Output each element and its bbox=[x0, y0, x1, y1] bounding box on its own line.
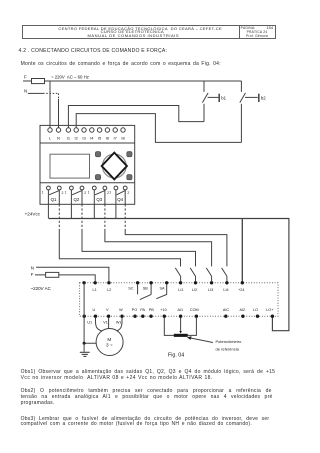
inverter terminals row1 bbox=[82, 281, 244, 284]
svg-text:b2: b2 bbox=[261, 95, 266, 100]
svg-text:1: 1 bbox=[42, 191, 44, 195]
pushbutton b2 bbox=[240, 81, 259, 142]
selector jumpers SC SB SA bbox=[138, 284, 167, 299]
svg-text:F: F bbox=[24, 75, 27, 80]
output terminal numbers bbox=[42, 191, 130, 196]
svg-text:SC: SC bbox=[128, 287, 134, 291]
logic module body bbox=[40, 125, 135, 204]
module keypad bbox=[95, 152, 132, 180]
node F label (mains) bbox=[31, 272, 34, 277]
ground bbox=[80, 343, 90, 356]
wire Q4 to LI4 bbox=[125, 190, 227, 267]
svg-text:AIC: AIC bbox=[223, 308, 230, 312]
svg-text:I1: I1 bbox=[67, 136, 71, 141]
svg-text:I7: I7 bbox=[114, 136, 118, 141]
label +24Vcc bbox=[25, 212, 41, 217]
paragraph Obs1 bbox=[21, 369, 276, 375]
svg-text:PO: PO bbox=[132, 308, 138, 312]
potentiometer body bbox=[174, 334, 188, 337]
svg-text:2: 2 bbox=[127, 191, 129, 195]
svg-text:L: L bbox=[49, 136, 52, 141]
svg-text:1: 1 bbox=[109, 191, 111, 195]
svg-text:~ 220V AC – 60 Hz: ~ 220V AC – 60 Hz bbox=[51, 74, 89, 79]
PE wire bbox=[84, 283, 96, 343]
contact LI1 bbox=[175, 268, 180, 281]
svg-text:SB: SB bbox=[143, 287, 149, 291]
svg-text:+24: +24 bbox=[238, 288, 244, 292]
pushbutton b1 bbox=[202, 81, 219, 122]
fuse F1 bbox=[32, 79, 45, 84]
intro line bbox=[21, 61, 221, 67]
svg-text:LO: LO bbox=[253, 308, 258, 312]
svg-text:I8: I8 bbox=[121, 136, 125, 141]
contact LI4 bbox=[222, 268, 227, 281]
svg-text:W: W bbox=[119, 308, 123, 312]
svg-text:Fig. 04: Fig. 04 bbox=[168, 353, 184, 359]
wire N to L2 bbox=[36, 267, 109, 281]
wire Q1 to LI1 bbox=[59, 190, 180, 267]
svg-text:2: 2 bbox=[62, 191, 64, 195]
svg-text:I6: I6 bbox=[106, 136, 110, 141]
svg-text:I5: I5 bbox=[98, 136, 102, 141]
svg-text:SA: SA bbox=[159, 287, 165, 291]
svg-text:LO+: LO+ bbox=[266, 308, 273, 312]
inverter dashed enclosure bbox=[80, 283, 278, 316]
label b2 bbox=[261, 95, 266, 100]
paragraph Obs3 bbox=[21, 416, 270, 422]
svg-text:Q1: Q1 bbox=[51, 197, 57, 202]
wires Q terminal-1 to rail bbox=[48, 190, 116, 219]
wire V to motor bbox=[108, 318, 110, 329]
wire rail to +24 terminal bbox=[241, 219, 243, 283]
contact LI3 bbox=[206, 268, 211, 281]
fuse F2 bbox=[46, 272, 59, 277]
contact LI2 bbox=[190, 268, 195, 281]
module display bbox=[50, 154, 90, 178]
svg-text:W1: W1 bbox=[116, 320, 122, 324]
label 220V AC (mains) bbox=[31, 286, 52, 291]
inverter row2 labels bottom bbox=[87, 320, 121, 324]
wire N neutral line bbox=[28, 93, 59, 127]
output contact blades bbox=[49, 190, 125, 194]
svg-text:LI4: LI4 bbox=[223, 288, 228, 292]
svg-text:V1: V1 bbox=[103, 320, 108, 324]
svg-text:N: N bbox=[24, 88, 27, 93]
svg-text:AI2: AI2 bbox=[239, 308, 245, 312]
module input labels bbox=[49, 136, 126, 141]
wire W to motor bbox=[117, 318, 122, 331]
PE junction bbox=[83, 342, 86, 345]
node F label bbox=[24, 75, 27, 80]
svg-text:LI1: LI1 bbox=[178, 288, 183, 292]
svg-text:3 ~: 3 ~ bbox=[106, 343, 113, 348]
svg-text:M: M bbox=[107, 337, 111, 342]
svg-text:Q3: Q3 bbox=[96, 197, 102, 202]
svg-text:L1: L1 bbox=[93, 288, 97, 292]
svg-text:I2: I2 bbox=[75, 136, 79, 141]
callout arrow bbox=[187, 336, 213, 342]
label 220V 60Hz bbox=[51, 74, 89, 79]
inverter row1 labels bbox=[93, 287, 245, 293]
svg-text:1: 1 bbox=[88, 191, 90, 195]
inverter terminals row2 bbox=[83, 315, 275, 318]
svg-text:F: F bbox=[31, 272, 34, 277]
section heading bbox=[19, 48, 168, 54]
wire F to fuse to L1 bbox=[35, 275, 95, 281]
svg-text:V: V bbox=[106, 308, 109, 312]
header table bbox=[22, 25, 276, 40]
svg-text:de referência: de referência bbox=[216, 346, 240, 351]
svg-text:N: N bbox=[57, 136, 60, 141]
svg-text:b1: b1 bbox=[221, 95, 226, 100]
label Fig 04 bbox=[168, 353, 184, 359]
svg-text:2: 2 bbox=[84, 191, 86, 195]
svg-text:LI3: LI3 bbox=[208, 288, 213, 292]
wire Q3 to LI3 bbox=[105, 190, 212, 267]
svg-text:U: U bbox=[92, 308, 95, 312]
label Potenciometro bbox=[216, 339, 243, 351]
wire Q2 to LI2 bbox=[82, 190, 196, 267]
paragraph Obs2 bbox=[21, 388, 272, 394]
motor M 3~ bbox=[96, 329, 123, 356]
svg-text:Q4: Q4 bbox=[117, 197, 123, 202]
svg-text:+24Vcc: +24Vcc bbox=[25, 212, 41, 217]
node N label (mains) bbox=[31, 266, 34, 271]
svg-text:I3: I3 bbox=[82, 136, 86, 141]
svg-text:PB: PB bbox=[149, 308, 155, 312]
svg-text:1: 1 bbox=[65, 191, 67, 195]
wire I2 to b2 bbox=[76, 114, 241, 143]
svg-text:PA: PA bbox=[140, 308, 145, 312]
svg-text:Potenciômetro: Potenciômetro bbox=[216, 339, 243, 344]
wire +24 rail bbox=[48, 219, 289, 331]
output labels Q1-Q4 bbox=[51, 197, 124, 202]
potentiometer wiring bbox=[164, 318, 196, 336]
svg-text:COM: COM bbox=[190, 308, 199, 312]
svg-text:L2: L2 bbox=[107, 288, 111, 292]
svg-text:I4: I4 bbox=[90, 136, 94, 141]
svg-text:Q2: Q2 bbox=[73, 197, 79, 202]
svg-text:LI2: LI2 bbox=[192, 288, 197, 292]
wire L riser bbox=[49, 81, 51, 128]
wire F phase line bbox=[23, 80, 241, 82]
wire I1 to b1 bbox=[68, 106, 204, 128]
label b1 bbox=[221, 95, 226, 100]
module output terminals Q1-Q4 bbox=[47, 186, 128, 190]
svg-text:U1: U1 bbox=[87, 320, 92, 324]
wire U to motor bbox=[96, 318, 102, 331]
svg-text:~220V AC: ~220V AC bbox=[31, 286, 52, 291]
svg-text:AI1: AI1 bbox=[177, 308, 183, 312]
inverter row2 labels top bbox=[92, 308, 273, 312]
svg-text:N: N bbox=[31, 266, 34, 271]
module input terminals bbox=[48, 128, 125, 132]
node N label bbox=[24, 88, 27, 93]
potentiometer wiper from AI1 bbox=[179, 318, 182, 334]
svg-text:+10: +10 bbox=[160, 308, 166, 312]
